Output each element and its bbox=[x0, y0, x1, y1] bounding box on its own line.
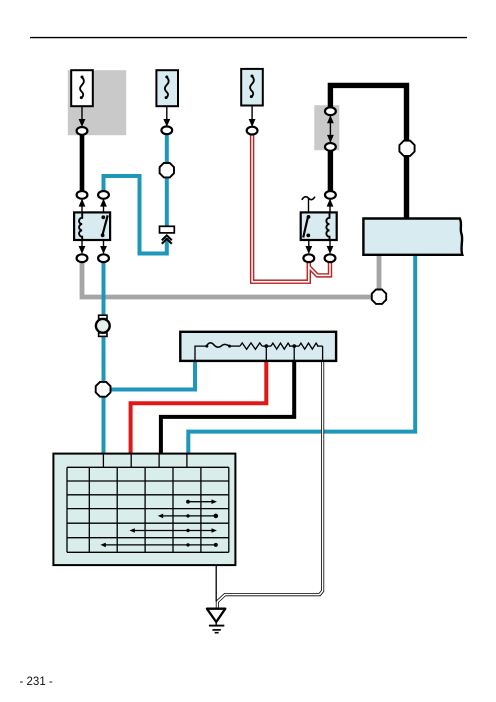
ground symbol bbox=[207, 609, 225, 633]
blower motor connector block (grid) bbox=[53, 454, 235, 565]
internal link row 4 bbox=[103, 544, 216, 546]
junction J1 octagon on gray bus bbox=[372, 290, 386, 304]
noise filter (circle component) on cyan wire bbox=[96, 315, 110, 336]
wire: fuse F2 to relay R1 switch (cyan) bbox=[165, 133, 169, 226]
wire: relay R1 switch output to blower connector (cyan) bbox=[102, 261, 106, 454]
wire: connector grid to ground (thin black) bbox=[215, 552, 217, 601]
pin arrows relay R1 top bbox=[79, 199, 107, 213]
junction J3 octagon on cyan wire bbox=[160, 163, 174, 177]
pin arrow: fuse F2 to connector bbox=[163, 106, 170, 127]
junction J4 octagon on black wire bbox=[399, 141, 414, 156]
connector terminal: fuse F2 output bbox=[161, 126, 172, 134]
connector terminals relay R2 bbox=[303, 191, 335, 262]
pin arrows relay R1 bottom bbox=[79, 240, 107, 254]
wire: resistor right end to ground (white, drawn as double line) bbox=[217, 361, 322, 608]
fuse F1 bbox=[71, 70, 93, 106]
wire: fuse F1 output (thick black) bbox=[80, 133, 85, 193]
pin arrow: fuse F3 to connector bbox=[249, 106, 256, 128]
big box: junction block (torn right edge) bbox=[363, 219, 462, 255]
junction J2 octagon on cyan wire bbox=[96, 382, 111, 397]
wire: battery bus (thick black) top right bbox=[330, 85, 406, 219]
wire: big box to junction J1 (gray) bbox=[377, 254, 382, 290]
pin arrow: fuse F1 to connector bbox=[79, 106, 86, 127]
pin arrows relay R2 bottom bbox=[305, 240, 333, 254]
internal link row 2 bbox=[161, 515, 216, 517]
connector terminals relay R1 bbox=[77, 191, 109, 262]
wire: junction J2 to blower resistor (cyan) bbox=[104, 361, 196, 390]
gray highlight behind fuse F1 bbox=[68, 70, 126, 135]
wire: big box to blower connector (cyan) bbox=[188, 254, 415, 454]
gray highlight behind inline connector pair bbox=[314, 105, 339, 150]
wire: fuse F3 to relay R2 (red double stripe) bbox=[252, 135, 330, 282]
relay R1 bbox=[74, 212, 110, 240]
fuse F2 bbox=[156, 70, 178, 106]
page number bbox=[20, 676, 53, 688]
wire: resistor tap 1 to connector (red) bbox=[131, 361, 267, 454]
inline connector pair (gray shaded) top right bbox=[325, 107, 336, 151]
fuse F3 bbox=[241, 69, 263, 106]
internal link row 3 bbox=[132, 530, 214, 532]
connector terminal: fuse F3 output bbox=[247, 127, 258, 135]
relay R2 left pin with continuation squiggle bbox=[302, 197, 315, 213]
connector terminal: fuse F1 output bbox=[77, 127, 88, 135]
wire: resistor tap 2 to connector (black) bbox=[161, 361, 294, 454]
relay R2 bbox=[301, 212, 337, 240]
page top rule bbox=[30, 37, 467, 39]
blower resistor box bbox=[180, 332, 336, 361]
wire: relay R1 to ground bus (gray) bbox=[82, 261, 372, 297]
internal link row 1 bbox=[188, 501, 214, 503]
pin arrow relay R2 coil top bbox=[327, 199, 334, 213]
inline connector: white box with chevrons bbox=[160, 226, 175, 243]
